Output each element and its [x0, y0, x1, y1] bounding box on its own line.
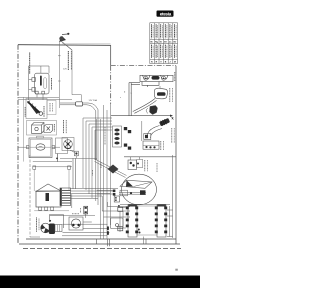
battery [36, 184, 61, 210]
fuse [84, 206, 88, 214]
verticals to bundle [72, 158, 74, 189]
right column comp1 handlebar plate [140, 75, 173, 87]
battery zone box [34, 169, 69, 211]
keyswitch [29, 66, 50, 100]
horn [69, 217, 83, 230]
top lever switch [59, 33, 111, 50]
center-left text col near pin strip [104, 127, 106, 145]
engine zone left edge [96, 119, 98, 160]
wire bottom y235.5 [62, 235, 107, 237]
vertical labels center top [67, 51, 69, 70]
frame step horizontal [111, 65, 176, 67]
long verticals center [101, 104, 111, 239]
bottom black bar [0, 276, 200, 288]
svg-text:BI: BI [164, 41, 167, 43]
svg-text:Mr: Mr [174, 41, 177, 43]
hour meter [18, 136, 60, 157]
pin blobs on vertical [107, 226, 109, 230]
frame step vertical [110, 45, 112, 65]
relay pads right [124, 127, 131, 150]
cylinders [128, 205, 166, 237]
zone dash vertical x=30 [29, 155, 31, 237]
wire y166 with terminals [33, 166, 72, 168]
diamond [108, 165, 119, 174]
wire from lever down [58, 42, 60, 108]
starter [36, 215, 63, 234]
wires from bundle to right [71, 189, 131, 212]
battery harness ribbed bundle [60, 188, 71, 206]
svg-text:Nr: Nr [151, 41, 154, 43]
harness fan: horizontals bending down [83, 118, 112, 198]
bottom border lines [26, 238, 176, 240]
divider above engine zone right [124, 156, 176, 158]
keyswitch label [51, 78, 53, 90]
etesia logo [157, 11, 174, 17]
scattered tiny labels [72, 163, 101, 214]
wires left y97-99 [18, 97, 59, 99]
double-line channel [129, 83, 140, 116]
small connector box mid [114, 196, 119, 202]
svg-text:M: M [174, 61, 176, 63]
light switch rotary [58, 138, 97, 162]
frame top edge [18, 44, 111, 47]
wire from keyswitch top area down right [71, 50, 73, 95]
solenoid box [111, 218, 124, 229]
labels right of comp4 [171, 128, 173, 143]
left zone vertical line [23, 97, 25, 162]
label left of lever box [24, 107, 26, 117]
svg-text:12V: 12V [63, 69, 67, 71]
relay cubes [27, 121, 57, 136]
cylinder caps [128, 205, 137, 207]
bottom ticks [96, 239, 98, 244]
frame right edge [175, 66, 177, 244]
right column comp2 switch [133, 86, 168, 113]
wires to engine lower-left [63, 217, 131, 233]
right column comp4 spark plug assembly [142, 117, 174, 150]
engine zone wires left [118, 208, 126, 233]
bottom right nested wires [169, 206, 171, 237]
svg-text:12V 20A: 12V 20A [89, 99, 98, 102]
vertical label POSITIVE EARTH [29, 53, 31, 75]
outer dashed frame left [17, 45, 19, 244]
diagonal pull lines [95, 159, 127, 176]
wire y215.6 [50, 215, 95, 217]
engine zone wires right [167, 155, 173, 238]
crankcase dots [138, 229, 140, 231]
right column comp3 switch [111, 106, 173, 117]
pads left of engine [113, 190, 116, 193]
connector pill on double wire [60, 102, 98, 205]
ticks on lever wire [58, 55, 61, 57]
pin strip connector [113, 126, 122, 147]
svg-text:etesia: etesia [160, 12, 172, 17]
lever control box [26, 99, 56, 119]
page number speck [175, 269, 178, 271]
svg-text:Vt: Vt [160, 40, 162, 43]
box right of hour meter [56, 138, 68, 154]
cylinder hanger line [120, 203, 170, 205]
small connector boxes above engine [128, 160, 137, 170]
label commutateur [62, 120, 64, 134]
engine ellipse [119, 174, 157, 205]
legend vertical text [152, 24, 175, 58]
legend table [150, 23, 178, 64]
wire y161 [33, 161, 72, 163]
